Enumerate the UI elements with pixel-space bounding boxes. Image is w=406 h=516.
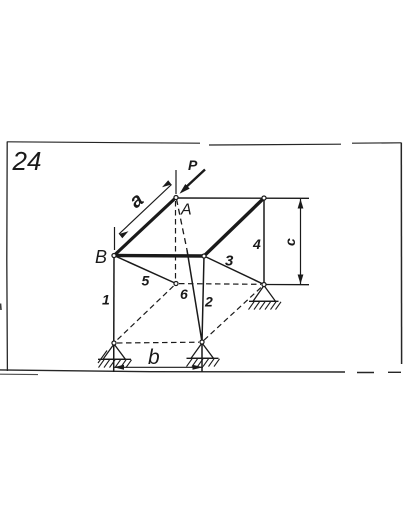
svg-text:4: 4 xyxy=(252,236,261,252)
support under F: hatching xyxy=(249,302,282,310)
force P line xyxy=(184,170,206,190)
svg-text:5: 5 xyxy=(142,273,150,289)
dimension a extension above A xyxy=(175,170,177,194)
dimension a arrow upper xyxy=(162,180,172,187)
bar 4 xyxy=(263,198,265,285)
frame border right xyxy=(400,143,402,365)
node G (right floor support) xyxy=(200,340,204,344)
construction line: floor front edge H1 to G (dashed) xyxy=(117,341,199,344)
node 6 joint xyxy=(174,281,178,285)
node D xyxy=(202,254,206,258)
svg-text:B: B xyxy=(95,247,107,267)
dimension a arrow lower xyxy=(119,231,129,238)
svg-text:c: c xyxy=(282,238,298,246)
dimension c line xyxy=(300,199,302,284)
svg-text:P: P xyxy=(188,157,198,173)
bar 1 xyxy=(113,256,115,373)
node B xyxy=(112,253,116,257)
dimension a line xyxy=(119,185,172,235)
svg-text:6: 6 xyxy=(180,286,188,302)
support under F: ground line xyxy=(249,300,279,302)
construction line: floor back edge node6 to F (dashed) xyxy=(179,283,261,286)
frame border top xyxy=(7,142,401,145)
dimension b arrow left xyxy=(114,365,125,370)
dimension c arrow top xyxy=(298,199,304,209)
node E xyxy=(262,196,266,200)
bar 2 xyxy=(202,256,204,372)
force P arrowhead xyxy=(180,184,190,194)
plate edge A-E with extension line for dim c (thin) xyxy=(176,197,309,199)
plate edge D-E (thick) xyxy=(204,198,264,256)
dimension c arrow bottom xyxy=(298,275,304,285)
scan artifact: doubled border stub bottom-left xyxy=(0,373,38,375)
node F xyxy=(262,282,266,286)
svg-text:A: A xyxy=(180,202,192,219)
node A xyxy=(174,195,178,199)
construction line: floor edge G to F (dashed) xyxy=(204,287,262,341)
node H1 (left floor support) xyxy=(112,341,116,345)
support under H1: hatching xyxy=(98,351,132,368)
dimension b arrow right xyxy=(193,365,204,370)
support under H1: triangle xyxy=(103,344,126,359)
svg-text:1: 1 xyxy=(102,292,110,308)
plate edge B-A (thick) xyxy=(114,198,176,256)
svg-text:3: 3 xyxy=(225,253,234,270)
bar 6 visible part xyxy=(187,250,202,342)
support under H1: ground line xyxy=(98,358,131,360)
support under F: triangle xyxy=(253,286,276,302)
bar 6 hidden part (dashed from A) xyxy=(177,199,188,250)
svg-text:b: b xyxy=(148,346,160,369)
support under G: ground line xyxy=(187,357,219,359)
scan artifact: left edge tick xyxy=(0,304,2,311)
dimension a extension above B xyxy=(114,227,116,250)
dimension b line xyxy=(114,366,204,368)
construction line: floor edge node6 to support H1 (dashed) xyxy=(116,286,174,341)
construction line: vertical A to node6 (dashed) xyxy=(175,201,177,281)
bar 3 xyxy=(204,256,264,285)
support under G: hatching xyxy=(187,359,220,367)
svg-text:24: 24 xyxy=(12,146,42,176)
svg-text:2: 2 xyxy=(204,294,213,310)
frame border bottom xyxy=(0,370,401,373)
frame border left xyxy=(6,142,9,372)
support under G: triangle xyxy=(191,343,214,358)
bar 5 xyxy=(114,256,176,284)
dimension c extension bottom xyxy=(264,284,309,286)
plate edge B-D (thick) xyxy=(114,254,204,258)
